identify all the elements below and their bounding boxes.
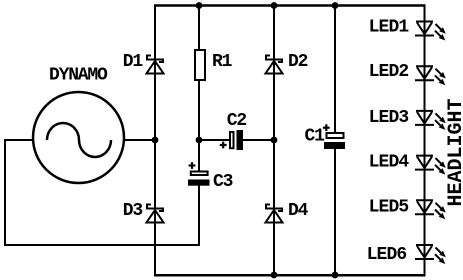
capacitor C2 minus plate (solid) — [237, 130, 244, 150]
capacitor C1 minus plate (solid) — [324, 142, 345, 149]
wire C1 column upper — [334, 5, 336, 134]
svg-text:D3: D3 — [123, 201, 143, 221]
wire D2/D4 column — [273, 5, 275, 277]
generator G1 DYNAMO circle — [33, 92, 124, 183]
wire C2 right plate to D2/D4 column — [242, 139, 275, 141]
wire mid node to C2 left plate — [198, 139, 230, 141]
node top rail / C1 — [332, 2, 339, 9]
LED LED4 — [415, 156, 441, 171]
wire dynamo right terminal — [122, 139, 156, 141]
capacitor C3 plus plate (hollow) — [191, 172, 208, 176]
capacitor C1 plus plate (hollow) — [327, 133, 344, 138]
node dynamo / D1-D3 — [152, 137, 159, 144]
LED LED6 — [415, 245, 441, 260]
svg-text:D1: D1 — [123, 52, 144, 72]
svg-text:LED6: LED6 — [367, 245, 407, 265]
wire LED column — [424, 5, 426, 277]
node top rail / D2 — [271, 2, 278, 9]
node bottom rail / C1 — [332, 272, 339, 279]
wire left column (D1/D3 branch) — [154, 5, 156, 277]
capacitor C2 plus plate (hollow) — [230, 132, 234, 148]
capacitor C3 minus plate (solid) — [188, 180, 210, 186]
wire bottom rail — [154, 274, 426, 277]
svg-text:C3: C3 — [213, 172, 233, 192]
generator sine wave — [47, 123, 111, 157]
diode D1 (schottky) — [147, 56, 164, 74]
node bottom rail / D4 — [271, 272, 278, 279]
wire top rail — [154, 4, 426, 7]
LED LED5 — [415, 200, 441, 215]
wire dynamo left loop to C3 bottom — [5, 140, 199, 245]
polarity plus C2 — [220, 142, 227, 149]
LED LED2 — [415, 66, 441, 81]
node R1 / C2 / C3 — [196, 137, 203, 144]
svg-text:LED4: LED4 — [369, 153, 410, 173]
wire C3 bottom stub — [198, 185, 200, 246]
svg-text:C2: C2 — [227, 111, 247, 131]
svg-text:R1: R1 — [212, 52, 233, 72]
svg-text:LED1: LED1 — [369, 18, 410, 38]
wire R1 bottom to mid node — [198, 81, 200, 172]
wire C1 column lower — [334, 148, 336, 276]
svg-text:D4: D4 — [288, 201, 309, 221]
svg-text:LED5: LED5 — [369, 198, 409, 218]
svg-text:C1: C1 — [305, 127, 326, 147]
node top rail / R1 — [196, 2, 203, 9]
diode D3 (schottky) — [147, 205, 164, 223]
svg-text:LED3: LED3 — [369, 108, 409, 128]
resistor R1 — [195, 50, 205, 80]
svg-text:DYNAMO: DYNAMO — [49, 66, 108, 86]
LED LED3 — [415, 111, 441, 126]
node C2 / D2-D4 — [271, 137, 278, 144]
polarity plus C3 — [189, 162, 196, 169]
polarity plus C1 — [323, 124, 330, 131]
svg-text:D2: D2 — [288, 52, 308, 72]
svg-text:LED2: LED2 — [369, 62, 409, 82]
diode D4 (schottky) — [266, 205, 283, 223]
wire R1/C3 column upper — [198, 5, 200, 50]
diode D2 (schottky) — [266, 56, 283, 74]
svg-text:HEADLIGHT: HEADLIGHT — [445, 98, 463, 206]
LED LED1 — [415, 22, 441, 37]
